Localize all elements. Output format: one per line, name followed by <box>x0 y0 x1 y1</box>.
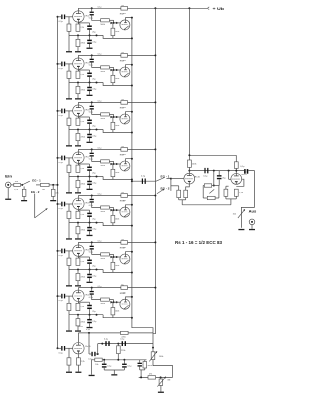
resistor 560k grid stopper stage 1 <box>101 19 110 22</box>
capacitor 2,5u stage 5 <box>89 223 91 227</box>
wire anode lead Rs15 <box>188 171 190 174</box>
wire to input bus <box>49 184 57 186</box>
jack input terminal Ein <box>5 182 11 188</box>
svg-text:Rs12: Rs12 <box>120 248 126 250</box>
junction bottom network nodes <box>103 359 105 361</box>
svg-text:Rs15: Rs15 <box>85 346 91 348</box>
capacitor 2,5u stage 4 <box>89 177 91 181</box>
svg-text:470k: 470k <box>81 322 85 324</box>
wire cathode junction line stage 3 <box>69 129 103 131</box>
triode Rs10 cathode follower (1/2 ECC 83) <box>120 207 130 217</box>
capacitor stage 8 input 0,1u <box>58 347 62 349</box>
ground input shunt 2 <box>52 196 54 200</box>
svg-text:100k: 100k <box>115 310 119 312</box>
junction supply rail <box>188 154 190 156</box>
wire cathode junction line stage 7 <box>69 314 103 316</box>
resistor bottom 10k <box>95 358 102 361</box>
node follower grid <box>113 256 115 258</box>
svg-text:Rs 1 - 16 = 1/2 ECC 83: Rs 1 - 16 = 1/2 ECC 83 <box>175 240 223 245</box>
svg-text:1M: 1M <box>42 189 45 191</box>
resistor cathode 2,2k Rs1 <box>77 23 79 25</box>
wire cathode junction line stage 4 <box>69 176 103 178</box>
junction grid line B <box>117 343 119 345</box>
resistor cathode 2,2k Rs5 <box>77 117 79 119</box>
resistor anode load 100k stage 3 <box>121 101 128 105</box>
triode Rs3 (1/2 ECC 83) <box>73 58 84 69</box>
wire follower anode to summing bus stage 7 <box>126 297 132 299</box>
svg-text:470k: 470k <box>81 42 85 44</box>
capacitor C3a 0,1u input coupling <box>58 110 62 112</box>
triode Rs15 summing amp <box>184 173 195 184</box>
wire pair join <box>139 367 141 370</box>
wire follower anode to summing bus stage 6 <box>126 252 132 254</box>
svg-text:Ra: Ra <box>121 52 123 54</box>
wire bottom out line <box>139 376 173 378</box>
capacitor 25u cathode bypass Rs13 <box>78 301 89 303</box>
ground stage 3 bypass cap <box>89 138 91 142</box>
wire grid leak to output line <box>112 315 114 318</box>
svg-text:560k: 560k <box>148 365 152 367</box>
wire grid Rs15 <box>171 178 184 180</box>
svg-text:Rs15: Rs15 <box>195 177 201 179</box>
wire coupling riser <box>88 333 90 354</box>
svg-text:2,2k: 2,2k <box>80 121 84 123</box>
resistor 470k stage 3 <box>77 130 79 134</box>
svg-text:470k: 470k <box>81 276 85 278</box>
capacitor 25u cathode bypass Rs3 <box>78 69 89 71</box>
junction output on summing bus <box>131 132 133 134</box>
resistor input 1M <box>36 184 40 186</box>
junction right Ub drop on top line <box>188 7 190 9</box>
wire input cap to grid of Rs5 <box>65 110 73 112</box>
stage 1 input junction on bus <box>57 16 59 18</box>
resistor 560k grid stopper stage 2 <box>101 66 110 69</box>
triode Rs11 (1/2 ECC 83) <box>73 245 84 256</box>
wire summing section supply rail <box>189 154 236 156</box>
wire follower anode to summing bus stage 2 <box>126 65 132 67</box>
capacitor series A 0,1u <box>105 341 106 346</box>
triode Rs14 cathode follower (1/2 ECC 83) <box>120 299 130 309</box>
resistor cathode 2,2k Rs3 <box>77 70 79 72</box>
ground stage 2 resistor 470k <box>77 94 79 99</box>
wire +Ub top supply line <box>78 7 207 9</box>
ground stage 6 resistor 470k <box>77 281 79 286</box>
capacitor 0,1u interstage <box>204 168 205 173</box>
wire follower output line stage 6 <box>113 272 132 274</box>
wire grid leak to output line <box>112 36 114 39</box>
capacitor C2b 0,1u coupling to follower <box>91 55 93 58</box>
wire cathode Rs16 <box>236 179 244 186</box>
wire output cap to level pot <box>241 171 254 228</box>
triode Rs6 cathode follower (1/2 ECC 83) <box>120 114 130 124</box>
svg-text:EG - 2: EG - 2 <box>31 190 40 194</box>
triode Rs4 cathode follower (1/2 ECC 83) <box>120 67 130 77</box>
node follower grid <box>113 301 115 303</box>
junction output on summing bus <box>131 179 133 181</box>
ground stage 4 grid leak <box>68 177 70 193</box>
capacitor C5a 0,1u input coupling <box>58 203 62 205</box>
triode Rs15 output stage <box>73 343 84 354</box>
ground bottom network left <box>89 375 95 376</box>
capacitor C3b 0,1u coupling to follower <box>91 102 93 105</box>
ground stage 2 grid leak <box>68 83 70 99</box>
svg-text:47k: 47k <box>149 374 152 376</box>
triode Rs2 cathode follower (1/2 ECC 83) <box>120 20 130 30</box>
junction anode on bus <box>131 111 133 113</box>
wire coupling cap to grid resistor <box>92 62 101 67</box>
junction output on summing bus <box>131 317 133 319</box>
node follower grid <box>113 209 115 211</box>
capacitor C4b 0,1u coupling to follower <box>91 149 93 152</box>
capacitor 2,5u stage 3 <box>89 130 91 134</box>
svg-text:2,2k: 2,2k <box>80 214 84 216</box>
capacitor bottom pair 0,1u <box>139 360 141 363</box>
wire Ub drop to summing section <box>188 8 190 160</box>
stage 4 input junction on bus <box>57 157 59 159</box>
wire bottom rail <box>78 332 153 334</box>
wire feedback left leg <box>203 185 204 187</box>
ground stage 5 grid leak <box>68 223 70 239</box>
resistor grid leak 1M Rs3 <box>68 64 70 71</box>
capacitor 0,1u output <box>244 169 246 174</box>
capacitor C5b 0,1u coupling to follower <box>91 196 93 199</box>
wire grid leak to output line <box>112 130 114 133</box>
capacitor 2,5u stage 6 <box>89 270 91 274</box>
node bottom coupling out <box>96 353 98 355</box>
resistor shunt 47k input <box>52 185 54 189</box>
ground stage 1 bypass cap <box>89 44 91 48</box>
capacitor C7b 0,1u coupling to follower <box>91 288 93 291</box>
svg-text:2,2k: 2,2k <box>80 261 84 263</box>
bus input distribution (left) <box>57 17 59 349</box>
svg-text:2,2k: 2,2k <box>80 74 84 76</box>
ground bottom shunt caps <box>111 374 117 375</box>
capacitor 25u cathode bypass Rs9 <box>78 209 89 211</box>
node follower grid <box>113 163 115 165</box>
wire cathode resistors join Rs16 <box>225 196 227 199</box>
wire follower output line stage 7 <box>113 317 132 319</box>
wire riser to grid line <box>97 344 99 354</box>
junction anode on bus <box>131 158 133 160</box>
node follower grid <box>113 69 115 71</box>
junction anode rail / coupling branch stage 3 <box>91 101 93 103</box>
wire to follower grid node <box>109 113 113 115</box>
wire cathode junction line stage 6 <box>69 269 103 271</box>
capacitor C1a 0,1u input coupling <box>58 16 62 18</box>
node follower grid <box>113 116 115 118</box>
resistor grid leak 1M Rs9 <box>68 204 70 211</box>
stage 2 input junction on bus <box>57 63 59 65</box>
svg-text:1M: 1M <box>167 379 170 381</box>
wire cathode junction line stage 1 <box>69 34 103 36</box>
bus +Ub vertical <box>153 8 155 333</box>
node bottom level pot top <box>152 347 154 349</box>
junction anode rail / coupling branch stage 2 <box>91 54 93 56</box>
resistor 560k grid stopper stage 7 <box>101 298 110 301</box>
triode Rs12 cathode follower (1/2 ECC 83) <box>120 254 130 264</box>
ground output jack <box>251 225 253 229</box>
ground output pot <box>238 229 244 230</box>
triode Rs1 (1/2 ECC 83) <box>73 11 84 22</box>
wire follower anode to summing bus stage 5 <box>126 205 132 207</box>
junction output on summing bus <box>131 272 133 274</box>
triode Rs8 cathode follower (1/2 ECC 83) <box>120 161 130 171</box>
wire input cap to grid of Rs9 <box>65 203 73 205</box>
wire follower anode to summing bus stage 1 <box>126 18 132 20</box>
resistor grid leak 1M Rs11 <box>68 251 70 258</box>
wire EG-1 to grid node <box>166 178 171 180</box>
svg-text:Rs10: Rs10 <box>120 201 126 203</box>
wire grid leak to output line <box>112 270 114 273</box>
node anode Rs15 <box>188 170 190 172</box>
resistor 470k stage 2 <box>77 83 79 87</box>
wire stage 1 anode to top line <box>77 8 79 10</box>
svg-text:2,2k: 2,2k <box>80 168 84 170</box>
arrow EG-2 feed <box>157 189 164 194</box>
svg-text:Ra: Ra <box>121 284 123 286</box>
capacitor 2,5u stage 2 <box>89 83 91 87</box>
resistor 470k stage 1 <box>77 35 79 39</box>
wire cathode junction line stage 2 <box>69 82 103 84</box>
ground stage 5 resistor 470k <box>77 234 79 239</box>
ground bottom grid leak <box>68 365 70 372</box>
wire EG-2 tap <box>34 194 36 218</box>
svg-text:+ Ub: + Ub <box>213 6 225 11</box>
wire feedback right leg <box>218 186 220 199</box>
ground stage 3 resistor 470k <box>77 141 79 146</box>
resistor anode Rs16 <box>235 155 237 162</box>
wire input cap to grid of Rs11 <box>65 250 73 252</box>
svg-text:Ra: Ra <box>121 146 123 148</box>
svg-text:Ra: Ra <box>121 5 123 7</box>
svg-text:470k: 470k <box>81 136 85 138</box>
resistor cathode 2,2k Rs13 <box>77 302 79 304</box>
switch EG-1 blade <box>156 177 165 181</box>
resistor 470k stage 4 <box>77 177 79 181</box>
wire anode rail of stage 4 <box>77 149 79 151</box>
resistor feedback 1M <box>204 184 211 187</box>
resistor follower grid leak stage 7 <box>112 302 114 307</box>
wire input cap to grid of Rs3 <box>65 63 73 65</box>
resistor 470k stage 7 <box>77 315 79 319</box>
wire coupling cap to grid resistor <box>92 15 101 20</box>
resistor 47k bottom out <box>148 376 156 379</box>
resistor 560k grid stopper stage 6 <box>101 253 110 256</box>
ground stage 7 bypass cap <box>89 323 91 327</box>
resistor 220k divider vertical <box>117 344 119 346</box>
wire coupling cap to grid resistor <box>92 294 101 299</box>
capacitor C6b 0,1u coupling to follower <box>91 242 93 245</box>
stage 3 input junction on bus <box>57 110 59 112</box>
resistor grid leak 1M Rs13 <box>68 296 70 303</box>
wire coupling cap to grid resistor <box>92 156 101 161</box>
svg-text:Ein: Ein <box>5 174 13 179</box>
wire to follower grid node <box>109 66 113 68</box>
wire input cap to grid of Rs1 <box>65 16 73 18</box>
resistor cathode Rs16 1,2k <box>234 189 238 196</box>
jack output terminal Aus <box>249 219 255 225</box>
wire coupling cap to grid resistor <box>92 202 101 207</box>
capacitor 25u cathode bypass Rs5 <box>78 116 89 118</box>
terminal +Ub <box>208 7 210 10</box>
resistor anode load 100k stage 7 <box>121 286 128 290</box>
svg-text:Ra: Ra <box>121 192 123 194</box>
capacitor C7a 0,1u input coupling <box>58 295 62 297</box>
resistor follower grid leak stage 3 <box>112 117 114 122</box>
wire bottom grid line <box>98 343 153 345</box>
resistor bottom anode load <box>121 331 129 334</box>
junction rail to +Ub bus stage 4 <box>154 148 156 150</box>
junction bottom out nodes <box>140 376 142 378</box>
junction output on summing bus <box>131 225 133 227</box>
wire anode rail of stage 2 <box>77 55 79 57</box>
svg-text:1,2k: 1,2k <box>239 192 243 194</box>
junction rail to +Ub bus stage 6 <box>154 241 156 243</box>
triode Rs7 (1/2 ECC 83) <box>73 152 84 163</box>
wire grid leak to output line <box>112 223 114 226</box>
ground stage 4 resistor 470k <box>77 188 79 193</box>
svg-text:EG - 2: EG - 2 <box>161 187 170 191</box>
junction anode rail / coupling branch stage 7 <box>91 287 93 289</box>
resistor follower grid leak stage 5 <box>112 210 114 215</box>
triode Rs13 (1/2 ECC 83) <box>73 290 84 301</box>
resistor anode 100k Rs15 <box>188 160 192 167</box>
resistor cathode 2,2k Rs9 <box>77 210 79 212</box>
svg-text:100k: 100k <box>115 218 119 220</box>
wire anode rail of stage 5 <box>77 196 79 198</box>
capacitor 25u to network <box>218 171 220 175</box>
svg-text:Rs14: Rs14 <box>120 293 126 295</box>
wire to follower grid node <box>109 160 113 162</box>
ground stage 3 grid leak <box>68 130 70 146</box>
bus summing (outputs) <box>132 18 153 348</box>
capacitor 2,5u stage 1 <box>89 35 91 39</box>
junction rail to +Ub bus stage 7 <box>154 287 156 289</box>
resistor grid leak 1M Rs7 <box>68 158 70 165</box>
svg-text:470k: 470k <box>81 89 85 91</box>
svg-text:4,7k: 4,7k <box>14 189 18 191</box>
resistor 560k grid stopper stage 4 <box>101 160 110 163</box>
junction anode on bus <box>131 17 133 19</box>
wire anode line to output stage <box>189 170 244 172</box>
resistor cathode 2,2k Rs11 <box>77 257 79 259</box>
wire anode rail of stage 7 <box>77 288 79 290</box>
svg-text:10k: 10k <box>95 364 98 366</box>
svg-text:2,2k: 2,2k <box>80 306 84 308</box>
resistor grid leak Rs15 <box>178 186 180 190</box>
wire to follower grid node <box>109 207 113 209</box>
potentiometer bottom level 100k <box>152 348 154 352</box>
triode Rs5 (1/2 ECC 83) <box>73 105 84 116</box>
svg-text:47k: 47k <box>55 193 58 195</box>
wire grid leak to output line <box>112 177 114 180</box>
capacitor C1b 0,1u coupling to follower <box>91 8 93 11</box>
resistor anode load 100k stage 4 <box>121 148 128 152</box>
arrow EG-2 continuation <box>35 208 48 218</box>
wire level pot output route <box>153 360 173 378</box>
junction input on bus <box>57 184 59 186</box>
switch EG-1 input blade <box>22 181 30 185</box>
svg-text:Aus: Aus <box>249 209 257 214</box>
wire grid leak to output line <box>112 83 114 86</box>
junction anode on bus <box>131 64 133 66</box>
node anode Rs16 <box>235 170 237 172</box>
wire jack to input resistor <box>11 184 14 186</box>
svg-text:470k: 470k <box>81 230 85 232</box>
capacitor C6a 0,1u input coupling <box>58 250 62 252</box>
node divider <box>213 170 215 172</box>
resistor grid leak 1M Rs1 <box>68 17 70 24</box>
potentiometer bottom out 1M <box>160 377 162 379</box>
capacitor 0,1u EG-1 feed <box>132 180 156 182</box>
svg-text:EG - 1: EG - 1 <box>161 174 170 178</box>
resistor 470k stage 5 <box>77 223 79 227</box>
resistor grid leak bottom stage <box>68 349 70 358</box>
node follower grid <box>113 22 115 24</box>
capacitor bottom shunt 0,1u no2 <box>123 360 125 364</box>
junction rail to +Ub bus stage 5 <box>154 195 156 197</box>
svg-text:470k: 470k <box>81 183 85 185</box>
triode Rs9 (1/2 ECC 83) <box>73 198 84 209</box>
wire to grid of output triode <box>65 347 73 349</box>
resistor follower grid leak stage 4 <box>112 164 114 169</box>
svg-text:100k: 100k <box>115 172 119 174</box>
wire input cap to grid of Rs13 <box>65 295 73 297</box>
ground stage 6 grid leak <box>68 270 70 286</box>
capacitor 25u cathode bypass Rs1 <box>78 22 89 24</box>
resistor network lower <box>207 196 215 199</box>
wire coupling cap to grid resistor <box>92 249 101 254</box>
junction anode rail / coupling branch stage 4 <box>91 148 93 150</box>
junction grid line A <box>101 343 103 345</box>
svg-text:Ra: Ra <box>121 239 123 241</box>
wire anode lead to bottom rail <box>77 333 79 342</box>
ground input shunt 1 <box>23 196 25 200</box>
resistor grid leak 1M Rs5 <box>68 111 70 118</box>
junction anode on bus <box>131 204 133 206</box>
wire follower output line stage 3 <box>113 132 132 134</box>
stage 5 input junction on bus <box>57 203 59 205</box>
node input switch <box>21 184 23 186</box>
junction stage 8 input on bus <box>57 347 59 349</box>
svg-text:100k: 100k <box>115 31 119 33</box>
resistor grid leak Rs16 <box>225 186 227 189</box>
ground stage 4 bypass cap <box>89 185 91 189</box>
ground input jack <box>7 188 9 199</box>
resistor follower grid leak stage 1 <box>112 23 114 28</box>
svg-text:EG - 1: EG - 1 <box>32 178 41 182</box>
resistor anode load 100k stage 2 <box>121 54 128 58</box>
wire coupling cap to grid resistor <box>92 109 101 114</box>
wire anode rail of stage 3 <box>77 102 79 104</box>
svg-text:2,2k: 2,2k <box>80 27 84 29</box>
resistor anode load 100k stage 5 <box>121 194 128 198</box>
wire grid Rs16 <box>229 178 231 180</box>
junction anode rail / coupling branch stage 1 <box>91 7 93 9</box>
ground stage 2 bypass cap <box>89 91 91 95</box>
wire cathode junction line stage 5 <box>69 222 103 224</box>
svg-text:100k: 100k <box>115 265 119 267</box>
wire to follower grid node <box>109 299 113 301</box>
resistor cathode bottom 2,2k <box>77 354 79 358</box>
resistor shunt 50k input <box>23 187 25 190</box>
svg-text:100k: 100k <box>115 125 119 127</box>
svg-text:Ra: Ra <box>121 99 123 101</box>
ground bottom out pot <box>160 385 162 391</box>
resistor anode load 100k stage 6 <box>121 241 128 245</box>
svg-text:220k: 220k <box>121 350 125 352</box>
capacitor bottom shunt 0,1u no1 <box>103 360 105 364</box>
